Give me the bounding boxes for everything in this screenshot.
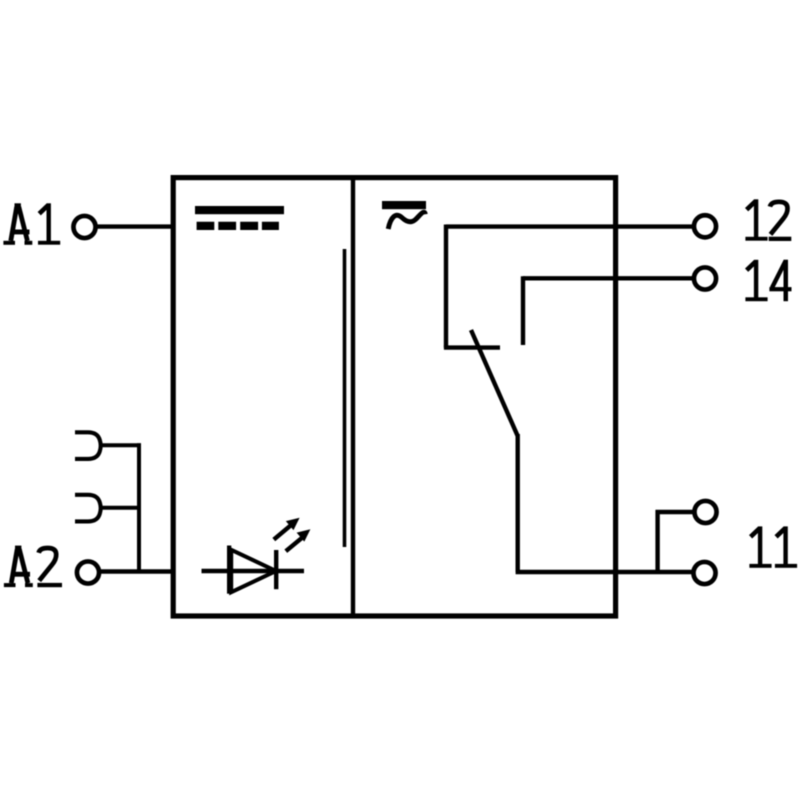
label 12 [745, 199, 791, 241]
wire 11 bracket top [656, 510, 694, 514]
switch arm [471, 330, 518, 436]
AC symbol tilde [388, 212, 425, 229]
LED arrow 1 [274, 518, 300, 540]
LED cathode bar [274, 550, 278, 589]
isolation barrier line [343, 249, 347, 547]
label 11 [749, 526, 797, 567]
contact 12 fixed bar [444, 345, 500, 349]
label 14 [745, 260, 791, 302]
LED arrow 2 [286, 529, 311, 551]
DC symbol dashed bar [197, 222, 279, 230]
clamp contact lower [75, 495, 101, 522]
switch arm vertical [516, 434, 520, 572]
wire clamp lower to bus [101, 506, 142, 510]
terminal A1 [73, 216, 95, 238]
label A2 [4, 546, 62, 588]
DC symbol solid bar [195, 206, 284, 214]
wire clamp upper to bus [101, 443, 142, 447]
wire A2 [99, 569, 173, 573]
wire 11 bottom [516, 570, 692, 574]
wire 12 [446, 224, 693, 228]
LED wire [202, 569, 305, 573]
wire 14 [523, 276, 693, 280]
terminal A2 [77, 561, 99, 583]
contact 14 vertical [521, 276, 525, 345]
contact 12 vertical [444, 225, 448, 348]
terminal 14 [694, 267, 716, 289]
device outline box [173, 178, 615, 616]
clamp contact upper [75, 432, 101, 459]
wire A1 [95, 224, 173, 228]
terminal 12 [694, 215, 716, 237]
bus wire [137, 443, 141, 571]
LED triangle [231, 550, 276, 592]
wire 11 bracket vertical [655, 510, 659, 572]
label A1 [3, 203, 60, 245]
LED anode bar [227, 546, 231, 594]
AC symbol bar [382, 201, 426, 209]
terminal 11 upper [694, 501, 716, 523]
terminal 11 lower [693, 562, 715, 584]
isolation divider [351, 177, 355, 616]
